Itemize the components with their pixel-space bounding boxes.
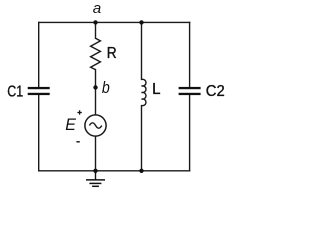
wire inductor to bottom [141,106,143,171]
svg-text:C1: C1 [7,84,23,101]
sine wave [89,123,101,128]
wire top [39,21,190,23]
capacitor C2 [179,87,201,95]
wire bottom [39,170,190,172]
svg-text:R: R [107,45,117,62]
svg-text:b: b [102,78,110,97]
svg-text:E: E [65,115,76,134]
resistor R [91,38,101,69]
junction bottom middle [93,169,97,173]
node b [93,85,97,89]
wire right upper (to C2) [189,22,191,87]
svg-text:L: L [152,81,161,98]
svg-text:a: a [93,0,101,17]
AC source E [85,115,106,136]
capacitor C1 [28,87,50,95]
wire left upper (to C1) [38,22,40,87]
junction top L [139,20,143,24]
node a [93,20,97,24]
svg-text:C2: C2 [206,83,225,100]
inductor L [142,79,147,105]
wire resistor to source (through node b) [95,70,97,115]
ground [86,171,105,187]
wire node to inductor [141,22,143,79]
minus sign [76,141,79,143]
wire right lower (from C2) [189,95,191,171]
wire left lower (from C1) [38,95,40,171]
wire source to bottom [95,136,97,171]
wire node a to resistor [95,22,97,38]
plus sign [77,110,81,114]
junction bottom L [139,169,143,173]
